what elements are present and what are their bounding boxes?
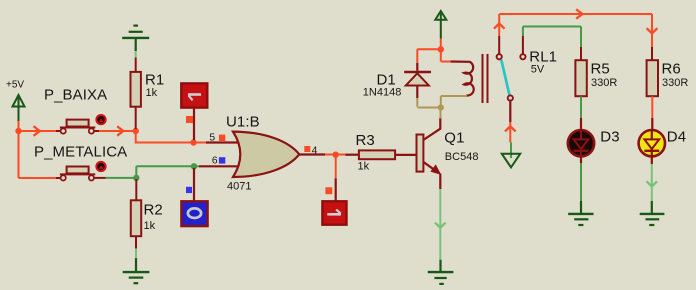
ground terminal (arrow, below relay pole): [502, 142, 520, 167]
LED D3 (off): [568, 128, 620, 156]
svg-text:Q1: Q1: [444, 130, 464, 147]
wire: junction step down to pin 5 row: [136, 131, 200, 143]
svg-text:U1:B: U1:B: [226, 113, 260, 130]
node: pin 6 junction (green): [191, 163, 197, 169]
svg-text:R5: R5: [591, 60, 610, 77]
relay core bars: [483, 54, 488, 103]
wire: pin 5 stub into gate: [200, 142, 238, 144]
top rail wire: [499, 9, 652, 18]
power terminal +5V: [6, 80, 25, 132]
ground (inverted, above R1): [122, 26, 149, 58]
wire: stem to logic probe 0: [193, 168, 195, 201]
svg-text:6: 6: [212, 155, 218, 166]
wire: rail down to R6: [647, 14, 658, 60]
wire: top of D1 to coil node: [417, 48, 441, 50]
node: R1 junction: [133, 128, 139, 134]
svg-text:R2: R2: [144, 202, 163, 219]
LED D4 (on, yellow): [639, 128, 687, 156]
push button P_BAIXA: [44, 87, 107, 134]
wire: P_BAIXA to node R1: [94, 126, 134, 135]
resistor R3 1k: [345, 132, 416, 173]
resistor R2 1k: [131, 179, 163, 249]
svg-text:D3: D3: [600, 128, 619, 145]
wire: R5 to D3: [580, 96, 582, 131]
wire: +5V to P_BAIXA: [19, 126, 61, 136]
svg-text:4071: 4071: [227, 180, 251, 192]
logic state box 0 (blue, value 0): [181, 201, 207, 226]
svg-text:+5V: +5V: [6, 80, 24, 91]
ground (below Q1): [428, 260, 454, 284]
wire: D3 to ground: [580, 156, 582, 163]
ground (below D3): [568, 201, 593, 225]
wire: D4 to ground (light green with arrow): [647, 156, 658, 201]
svg-text:1k: 1k: [144, 220, 156, 232]
svg-text:R6: R6: [662, 60, 681, 77]
pin indicator square (red) above output box: [325, 187, 332, 194]
pin indicator square (red) pin 4: [304, 146, 310, 152]
svg-text:R3: R3: [356, 132, 375, 149]
svg-text:R1: R1: [145, 72, 164, 89]
wire: pole down to ground terminal: [505, 101, 516, 143]
wire: P_METALICA to node: [94, 177, 136, 179]
wire: stem to logic probe (output): [335, 155, 337, 201]
pin indicator square (blue) pin 6: [219, 157, 225, 163]
svg-text:1N4148: 1N4148: [363, 87, 402, 99]
wire: collector net (khaki): [417, 96, 441, 119]
node: +5V junction: [15, 128, 21, 134]
pin indicator square (red) below box 1: [186, 116, 193, 123]
diode D1 1N4148: [363, 49, 431, 106]
wire: pin 6 stub into gate: [194, 165, 238, 167]
node: collector junction (khaki): [438, 104, 444, 110]
svg-text:BC548: BC548: [445, 151, 479, 163]
push button P_METALICA: [34, 144, 127, 181]
wire: R6 to D4: [651, 96, 653, 131]
pin indicator square (red) pin 5: [219, 135, 225, 141]
logic state box 1 (red, value 1): [181, 83, 207, 107]
relay labels RL1 5V: [529, 48, 557, 75]
ground (below D4): [640, 201, 665, 225]
resistor R5 330R: [575, 60, 617, 96]
wire: gate output: [299, 153, 346, 155]
resistor R6 330R: [647, 60, 689, 96]
wire: emitter to ground: [435, 189, 446, 260]
svg-text:P_METALICA: P_METALICA: [34, 144, 127, 161]
wire: up and across to pin 6: [136, 166, 194, 178]
wire: rail down to left contact: [494, 14, 505, 54]
resistor R1 1k: [131, 58, 165, 130]
wire: relay NO contact to R5 (green): [523, 27, 581, 61]
svg-text:1k: 1k: [146, 87, 158, 99]
relay RL1 coil: [441, 49, 474, 96]
node: pin 5 junction: [190, 139, 196, 145]
svg-text:330R: 330R: [662, 77, 688, 89]
node: relay top junction: [438, 46, 444, 52]
svg-text:D4: D4: [667, 128, 686, 145]
ground (below R2): [123, 249, 150, 284]
svg-text:5V: 5V: [531, 64, 545, 76]
pin indicator square (blue) above box 0: [186, 187, 192, 193]
svg-text:1k: 1k: [358, 161, 370, 173]
svg-text:330R: 330R: [591, 77, 617, 89]
OR gate U1:B 4071: [226, 113, 299, 192]
svg-text:5: 5: [209, 133, 215, 144]
transistor Q1 BC548: [417, 118, 479, 189]
wire: stem from logic probe 1: [193, 108, 195, 140]
wire: +5V down to P_METALICA row: [19, 131, 61, 178]
logic state box (red, value 1, output): [322, 201, 346, 224]
svg-text:P_BAIXA: P_BAIXA: [44, 87, 107, 104]
node: R2 junction (green): [133, 175, 139, 181]
power terminal (above relay coil): [435, 11, 446, 49]
svg-text:4: 4: [312, 145, 318, 156]
relay contact circles and blade: [497, 54, 526, 100]
node: output junction: [333, 152, 339, 158]
